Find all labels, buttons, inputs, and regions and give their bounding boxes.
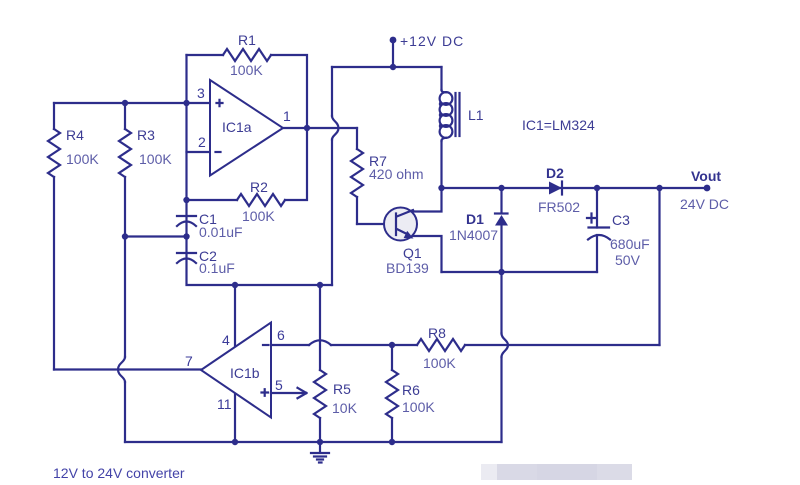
node junction dots — [122, 64, 663, 445]
resistor R5 — [314, 285, 358, 442]
node R3 bottom — [122, 233, 128, 239]
svg-text:680uF: 680uF — [610, 236, 650, 252]
svg-text:6: 6 — [277, 327, 285, 343]
svg-text:R6: R6 — [402, 382, 420, 398]
op-amp IC1b — [201, 323, 271, 418]
wire pin7 row y=369.5 — [54, 368, 201, 370]
node Vout branch — [656, 185, 662, 191]
wire hop x501.5 over R8 row — [502, 334, 509, 358]
wire R3 lower — [124, 382, 126, 442]
svg-text:100K: 100K — [423, 355, 456, 371]
svg-text:100K: 100K — [139, 151, 172, 167]
wire emitter row y=272 — [442, 271, 598, 273]
svg-text:2: 2 — [198, 134, 206, 150]
svg-text:L1: L1 — [468, 107, 484, 123]
svg-text:1N4007: 1N4007 — [449, 227, 498, 243]
wire top input rail y=103 — [54, 102, 210, 104]
wire x501.5 to bottom rail — [500, 357, 502, 442]
svg-text:420 ohm: 420 ohm — [369, 166, 423, 182]
resistor R2 — [187, 128, 308, 224]
diode D1 — [449, 188, 508, 272]
wire pin2 stub — [187, 151, 211, 153]
node C3 top — [594, 185, 600, 191]
svg-text:IC1=LM324: IC1=LM324 — [522, 117, 595, 133]
wire R8 row right — [465, 344, 660, 346]
node R6 bottom — [389, 439, 395, 445]
svg-text:5: 5 — [275, 377, 283, 393]
node R3 top — [122, 100, 128, 106]
svg-text:100K: 100K — [402, 399, 435, 415]
wire base row — [357, 223, 395, 225]
wire collector stub — [413, 188, 442, 212]
node pin11 — [232, 439, 238, 445]
svg-text:R8: R8 — [428, 325, 446, 341]
resistor R1 — [187, 32, 308, 128]
svg-text:4: 4 — [222, 332, 230, 348]
wire D1 lower vertical with hop — [500, 272, 502, 334]
svg-text:IC1b: IC1b — [230, 365, 260, 381]
svg-text:0.1uF: 0.1uF — [199, 260, 235, 276]
svg-text:3: 3 — [197, 85, 205, 101]
wire main output row y=188 — [442, 187, 708, 189]
node +12V rail — [390, 64, 396, 70]
capacitor C3 — [587, 188, 650, 272]
node output pin1 — [304, 125, 310, 131]
terminal Vout — [704, 185, 711, 192]
svg-text:R3: R3 — [137, 127, 155, 143]
svg-text:100K: 100K — [242, 208, 275, 224]
svg-text:IC1a: IC1a — [222, 119, 252, 135]
wire pin5 wiper arrow — [271, 392, 305, 394]
svg-text:Vout: Vout — [691, 168, 721, 184]
resistor R7 — [351, 128, 423, 224]
svg-text:12V to 24V converter: 12V to 24V converter — [53, 465, 185, 481]
svg-text:Q1: Q1 — [403, 245, 422, 261]
node R5 top — [317, 282, 323, 288]
wire op-amp output row y=128 — [283, 127, 357, 129]
svg-text:11: 11 — [217, 396, 232, 412]
wire mid vertical x=332 with hop — [331, 67, 333, 116]
svg-text:FR502: FR502 — [538, 199, 580, 215]
node pin3 — [183, 100, 189, 106]
svg-text:R2: R2 — [250, 179, 268, 195]
wire Vout branch vertical x=659.5 — [658, 188, 660, 345]
svg-text:1: 1 — [283, 108, 291, 124]
resistor R6 — [386, 345, 435, 442]
wire pin6 row with bump over R5 — [271, 344, 309, 346]
svg-text:+12V DC: +12V DC — [400, 33, 464, 49]
watermark — [481, 464, 632, 480]
wire hop x332 over output row — [332, 116, 339, 140]
diode D2 — [538, 165, 580, 215]
wire hop pin6 over R5 — [309, 340, 331, 345]
capacitor C1 — [177, 211, 243, 240]
svg-text:R4: R4 — [66, 127, 84, 143]
wire hop R3 over pin7 wire — [118, 357, 125, 382]
wire pin11 stub — [234, 393, 236, 442]
ground — [311, 442, 329, 463]
node R2 left — [183, 197, 189, 203]
inductor L1 — [439, 67, 484, 188]
node D1 bottom — [498, 269, 504, 275]
wire main left vertical x=186.5 — [187, 55, 333, 285]
svg-text:7: 7 — [185, 353, 193, 369]
resistor R3 — [119, 103, 172, 357]
capacitor C2 — [177, 248, 235, 276]
op-amp IC1a — [210, 80, 283, 176]
wire +12V rail y=67 — [332, 66, 442, 68]
wire x332 lower — [331, 140, 333, 286]
wire bottom rail y=442 — [125, 441, 502, 443]
node pin4 — [232, 282, 238, 288]
terminal +12V — [390, 37, 397, 44]
svg-text:100K: 100K — [230, 62, 263, 78]
svg-text:R5: R5 — [333, 381, 351, 397]
transistor Q1 — [384, 208, 429, 277]
node ground — [317, 439, 323, 445]
wire R3 to C1C2 junction y=236.5 — [125, 235, 187, 237]
svg-text:0.01uF: 0.01uF — [199, 224, 243, 240]
svg-text:24V DC: 24V DC — [680, 196, 729, 212]
svg-text:D2: D2 — [546, 165, 564, 181]
wire emitter path — [413, 236, 442, 272]
svg-text:50V: 50V — [615, 252, 641, 268]
svg-text:BD139: BD139 — [386, 260, 429, 276]
svg-text:100K: 100K — [66, 151, 99, 167]
resistor R8 — [392, 325, 465, 371]
node D1 top — [498, 185, 504, 191]
node C1C2 — [183, 233, 189, 239]
svg-text:C3: C3 — [612, 212, 630, 228]
node R6 top — [389, 342, 395, 348]
svg-text:R1: R1 — [238, 32, 256, 48]
svg-text:D1: D1 — [466, 211, 484, 227]
resistor R4 — [48, 103, 99, 370]
svg-text:10K: 10K — [332, 400, 358, 416]
node collector — [438, 185, 444, 191]
wire +12V stem — [392, 40, 394, 67]
wire pin4 stub — [234, 285, 236, 347]
